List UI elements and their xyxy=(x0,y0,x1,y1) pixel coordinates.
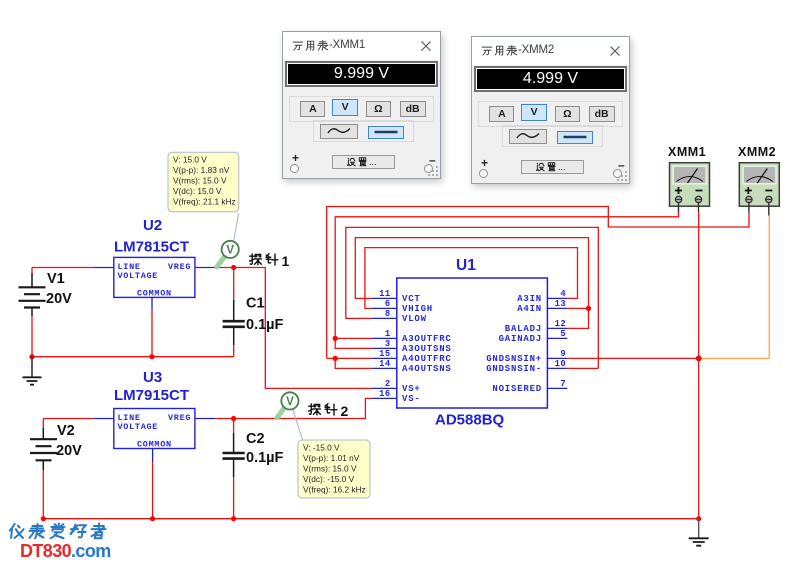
svg-text:V(rms): 15.0 V: V(rms): 15.0 V xyxy=(303,464,357,474)
svg-text:14: 14 xyxy=(379,359,391,369)
probe 1 xyxy=(217,241,239,267)
svg-text:16: 16 xyxy=(379,389,390,399)
svg-text:20V: 20V xyxy=(56,443,82,459)
svg-text:V: V xyxy=(226,245,234,257)
svg-text:U2: U2 xyxy=(143,217,162,234)
svg-text:NOISERED: NOISERED xyxy=(492,384,542,394)
wire net VCT to A4IN BALADJ xyxy=(355,238,588,329)
svg-text:9: 9 xyxy=(560,349,566,359)
wire XMM1 minus to ground xyxy=(698,212,700,519)
svg-text:VHIGH: VHIGH xyxy=(402,304,433,314)
capacitor C2 xyxy=(223,433,245,477)
svg-text:A4OUTFRC: A4OUTFRC xyxy=(402,354,452,364)
battery V1 xyxy=(19,273,46,316)
svg-text:12: 12 xyxy=(555,319,566,329)
leader line tooltip2 xyxy=(293,409,303,440)
wire stubs XMM2 xyxy=(749,203,769,216)
svg-text:BALADJ: BALADJ xyxy=(505,324,542,334)
leader line tooltip1 xyxy=(234,214,239,243)
svg-text:...: ... xyxy=(558,162,566,172)
IC U1 AD588BQ xyxy=(372,257,568,429)
svg-text:VREG: VREG xyxy=(168,262,191,272)
battery V2 xyxy=(30,428,57,470)
svg-text:A4OUTSNS: A4OUTSNS xyxy=(402,364,452,374)
svg-text:COMMON: COMMON xyxy=(137,440,172,450)
svg-text:13: 13 xyxy=(555,299,566,309)
svg-text:C2: C2 xyxy=(246,431,265,447)
svg-text:15: 15 xyxy=(379,349,390,359)
svg-text:XMM2: XMM2 xyxy=(738,145,776,159)
svg-text:10: 10 xyxy=(555,359,566,369)
svg-text:V: -15.0 V: V: -15.0 V xyxy=(303,443,340,453)
svg-text:VREG: VREG xyxy=(168,413,191,423)
wire U2 VREG to node xyxy=(215,267,234,269)
wire lower ground rail xyxy=(43,518,698,520)
regulator U2 LM7815CT xyxy=(94,217,215,310)
wire U2 COMMON down xyxy=(151,310,153,357)
capacitor C1 xyxy=(223,300,245,345)
wire VS- net to node 2 xyxy=(215,398,372,418)
wire C2 leads xyxy=(233,419,235,519)
svg-text:XMM1: XMM1 xyxy=(668,145,706,159)
svg-text:V(rms): 15.0 V: V(rms): 15.0 V xyxy=(173,176,227,186)
wire pin9 to ground node xyxy=(567,357,698,359)
tooltip probe1 xyxy=(168,152,239,212)
svg-text:V(p-p): 1.83 nV: V(p-p): 1.83 nV xyxy=(173,165,230,175)
svg-text:A4IN: A4IN xyxy=(517,304,542,314)
wire U3 COMMON down xyxy=(152,462,154,519)
label 探针2 xyxy=(309,403,349,419)
svg-text:V(freq): 21.1 kHz: V(freq): 21.1 kHz xyxy=(173,197,236,207)
wire net VHIGH to A3IN xyxy=(365,248,578,309)
svg-text:V: V xyxy=(286,396,294,408)
multimeter dialog XMM1 xyxy=(282,31,441,179)
svg-text:GAINADJ: GAINADJ xyxy=(499,334,542,344)
wire stubs XMM1 xyxy=(679,203,699,213)
wire orange XMM2 minus to ground node xyxy=(699,216,770,359)
svg-text:U1: U1 xyxy=(456,257,476,274)
multimeter XMM1 xyxy=(668,145,710,206)
svg-text:0.1µF: 0.1µF xyxy=(246,317,284,333)
wire V2 top to U3 LINE xyxy=(43,419,94,429)
tooltip probe2 xyxy=(298,440,370,498)
svg-text:2: 2 xyxy=(385,379,391,389)
multimeter dialog XMM2 xyxy=(471,36,630,184)
svg-text:V: 15.0 V: V: 15.0 V xyxy=(173,155,207,165)
wire V1 bottom to ground rail xyxy=(31,316,33,357)
svg-text:COMMON: COMMON xyxy=(137,289,172,299)
wire net A3OUT to XMM1 plus xyxy=(335,212,678,348)
svg-text:V(dc): -15.0 V: V(dc): -15.0 V xyxy=(303,474,355,484)
svg-text:GNDSNSIN+: GNDSNSIN+ xyxy=(486,354,542,364)
svg-text:5: 5 xyxy=(560,329,566,339)
svg-text:VOLTAGE: VOLTAGE xyxy=(118,422,159,432)
svg-text:V1: V1 xyxy=(47,271,65,287)
svg-text:6: 6 xyxy=(385,299,391,309)
wire C1 leads xyxy=(233,268,235,357)
svg-text:1: 1 xyxy=(385,329,391,339)
regulator U3 LM7915CT xyxy=(94,369,215,462)
wire net A4OUT to XMM2 plus xyxy=(327,207,749,369)
svg-text:...: ... xyxy=(369,157,377,167)
wire V2 bottom to rail xyxy=(42,470,44,519)
svg-text:VCT: VCT xyxy=(402,294,421,304)
svg-text:4: 4 xyxy=(560,289,566,299)
svg-text:C1: C1 xyxy=(246,296,265,312)
wire node to VS+ pin 2 xyxy=(234,268,372,389)
svg-text:U3: U3 xyxy=(143,369,162,386)
svg-text:V(dc): 15.0 V: V(dc): 15.0 V xyxy=(173,186,222,196)
watermark 仪表爱好者 xyxy=(9,524,106,539)
svg-text:0.1µF: 0.1µF xyxy=(246,450,284,466)
svg-text:DT830.com: DT830.com xyxy=(20,541,111,561)
multimeter XMM2 xyxy=(738,145,779,206)
svg-text:2: 2 xyxy=(341,403,349,419)
svg-text:VS-: VS- xyxy=(402,394,421,404)
ground (V1) xyxy=(23,357,42,385)
svg-text:1: 1 xyxy=(282,253,290,269)
svg-text:VLOW: VLOW xyxy=(402,314,427,324)
svg-text:V2: V2 xyxy=(57,423,75,439)
svg-text:LM7815CT: LM7815CT xyxy=(114,239,189,256)
svg-text:VOLTAGE: VOLTAGE xyxy=(118,271,159,281)
svg-text:3: 3 xyxy=(385,339,391,349)
wire V1 top to U2 LINE xyxy=(32,268,94,274)
label 探针1 xyxy=(250,253,290,269)
svg-text:AD588BQ: AD588BQ xyxy=(435,412,505,429)
svg-text:A3OUTSNS: A3OUTSNS xyxy=(402,344,452,354)
svg-text:LM7915CT: LM7915CT xyxy=(114,387,189,404)
svg-text:8: 8 xyxy=(385,309,391,319)
wire upper ground rail xyxy=(32,356,234,358)
ground (bottom right) xyxy=(689,519,709,546)
probe 2 xyxy=(277,392,299,418)
wire net VLOW to GNDSNSIN- xyxy=(346,227,599,368)
svg-text:7: 7 xyxy=(560,379,566,389)
svg-text:V(p-p): 1.01 nV: V(p-p): 1.01 nV xyxy=(303,453,360,463)
svg-text:A3IN: A3IN xyxy=(517,294,542,304)
svg-text:20V: 20V xyxy=(46,291,72,307)
svg-text:11: 11 xyxy=(379,289,390,299)
svg-text:GNDSNSIN-: GNDSNSIN- xyxy=(486,364,542,374)
svg-text:A3OUTFRC: A3OUTFRC xyxy=(402,334,452,344)
svg-text:V(freq): 16.2 kHz: V(freq): 16.2 kHz xyxy=(303,485,366,495)
svg-text:VS+: VS+ xyxy=(402,384,421,394)
